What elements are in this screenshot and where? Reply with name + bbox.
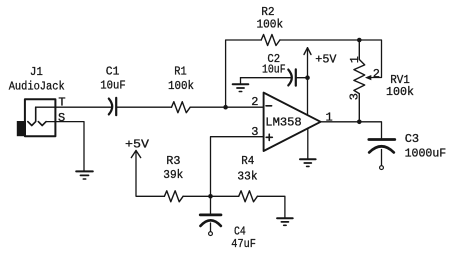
label C2 — [267, 52, 280, 66]
label 100k — [168, 79, 194, 93]
label RV1 — [390, 73, 410, 87]
op-amp plus sign — [266, 134, 272, 140]
label C1 — [106, 65, 120, 79]
pin label 2 op-amp — [251, 95, 258, 109]
capacitor C4 — [200, 196, 221, 231]
svg-text:100k: 100k — [168, 79, 194, 93]
svg-text:+5V: +5V — [315, 53, 337, 67]
svg-text:100k: 100k — [386, 85, 414, 99]
op-amp U1 LM358 triangle — [264, 93, 321, 151]
label +5V bottom — [125, 137, 150, 151]
power +5V bottom arrow — [131, 151, 164, 197]
svg-text:1: 1 — [348, 56, 362, 63]
svg-text:47uF: 47uF — [231, 237, 256, 251]
capacitor C2 — [288, 69, 296, 85]
wire node up to R2 — [226, 40, 262, 107]
junction node C2/+5V — [305, 75, 310, 80]
label 47uF — [231, 237, 256, 251]
wire ground to C2 — [241, 77, 291, 79]
label AudioJack — [9, 80, 65, 94]
svg-text:R3: R3 — [166, 154, 180, 168]
svg-text:R4: R4 — [241, 154, 254, 168]
label C4 — [234, 225, 246, 239]
wire R2 to RV1 top — [280, 40, 382, 78]
capacitor C3 — [369, 140, 395, 166]
label J1 — [30, 65, 43, 79]
svg-text:10uF: 10uF — [262, 63, 286, 77]
wire C2 to +5V node — [296, 77, 308, 79]
pin label S — [58, 111, 65, 125]
label R1 — [174, 65, 186, 79]
wire R1 to op-amp pin 2 — [190, 106, 263, 108]
pin label 1 RV1 (rotated) — [348, 56, 362, 63]
svg-text:2: 2 — [251, 95, 258, 109]
pin label 1 op-amp — [326, 110, 333, 124]
label R2 — [261, 5, 274, 19]
ground R4 — [277, 218, 293, 225]
svg-text:S: S — [58, 111, 65, 125]
svg-text:+5V: +5V — [125, 137, 150, 151]
label R4 — [241, 154, 254, 168]
label R3 — [166, 154, 180, 168]
svg-text:R1: R1 — [174, 65, 186, 79]
svg-text:C3: C3 — [405, 132, 419, 146]
svg-text:100k: 100k — [257, 17, 284, 31]
svg-text:C1: C1 — [106, 65, 120, 79]
resistor R3 — [164, 191, 183, 202]
junction node bias — [208, 194, 213, 199]
wire R3 to node — [183, 195, 239, 197]
label LM358 — [265, 116, 301, 130]
svg-text:2: 2 — [373, 67, 380, 81]
junction node output — [357, 120, 362, 125]
terminal circle C4 — [209, 232, 213, 236]
connector J1 AudioJack body — [17, 99, 56, 136]
label +5V top — [315, 53, 337, 67]
wire R4 to ground — [257, 196, 285, 218]
wire C1 to R1 — [116, 106, 171, 108]
power +5V top arrow — [304, 48, 311, 115]
ground jack — [76, 171, 93, 179]
label 100k R2 — [257, 17, 284, 31]
ground op-amp V- — [300, 128, 316, 166]
label 39k — [163, 168, 183, 182]
label 10uF C2 — [262, 63, 286, 77]
wire op-amp output — [321, 122, 382, 138]
resistor R4 — [239, 191, 258, 202]
terminal circle C3 — [380, 166, 384, 170]
resistor R2 — [261, 35, 280, 46]
pin label 2 RV1 — [373, 67, 380, 81]
label 10uF — [100, 79, 125, 93]
wire node up to op-amp pin 3 — [211, 137, 264, 197]
svg-text:3: 3 — [348, 93, 362, 100]
label 100k RV1 — [386, 85, 414, 99]
capacitor C1 — [109, 98, 116, 115]
pin label 3 op-amp — [251, 125, 258, 139]
potentiometer RV1 — [354, 40, 371, 122]
wire jack S to ground — [46, 122, 84, 172]
junction node R2/RV1 — [357, 38, 362, 43]
svg-text:33k: 33k — [237, 170, 257, 184]
pin label 3 RV1 (rotated) — [348, 93, 362, 100]
svg-text:1000uF: 1000uF — [405, 146, 447, 160]
label C3 — [405, 132, 419, 146]
svg-text:10uF: 10uF — [100, 79, 125, 93]
resistor R1 — [172, 102, 191, 113]
label 33k — [237, 170, 257, 184]
wire jack T to C1 — [36, 106, 112, 108]
ground C2 — [233, 78, 249, 92]
svg-text:J1: J1 — [30, 65, 43, 79]
op-amp minus sign — [266, 105, 272, 107]
svg-text:LM358: LM358 — [265, 116, 301, 130]
svg-text:39k: 39k — [163, 168, 183, 182]
svg-text:AudioJack: AudioJack — [9, 80, 65, 94]
label 1000uF — [405, 146, 447, 160]
junction node input — [223, 105, 228, 110]
pin label T — [58, 96, 65, 110]
